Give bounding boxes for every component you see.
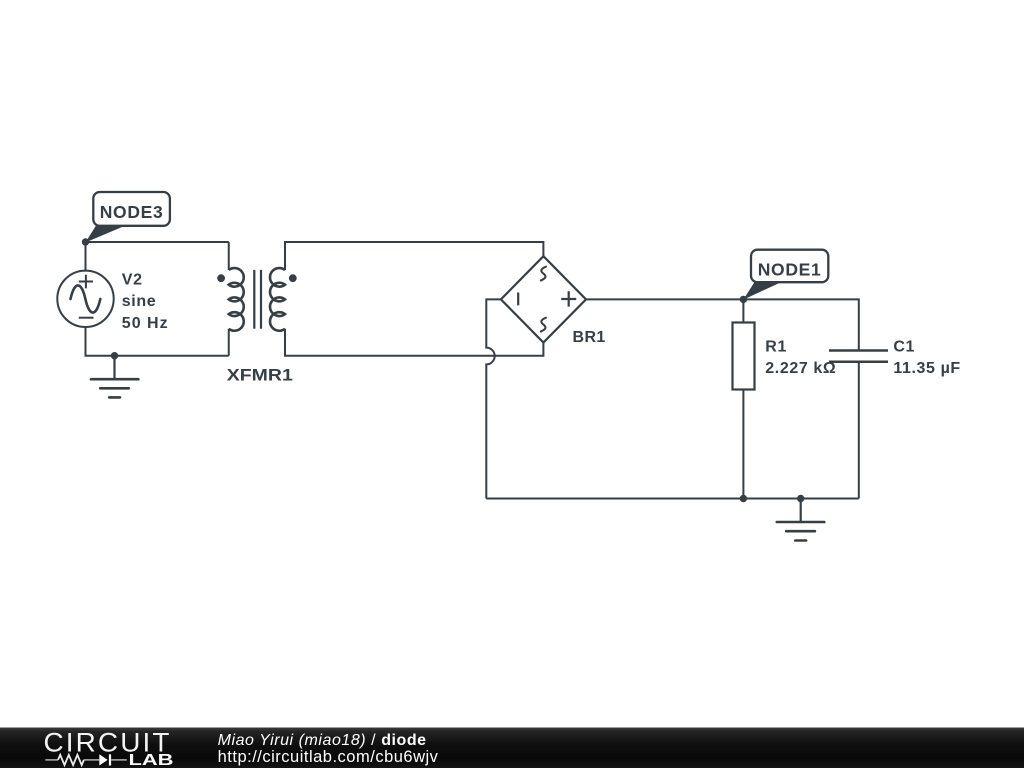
bridge rectifier BR1 <box>501 256 586 342</box>
ground (right) <box>777 499 825 541</box>
svg-text:Miao Yirui (miao18) / diode: Miao Yirui (miao18) / diode <box>218 732 427 749</box>
resistor R1 <box>733 323 755 390</box>
svg-text:sine: sine <box>122 293 156 310</box>
junction dot R1 bottom <box>740 495 747 502</box>
label R1 2.227 kOhm <box>765 339 836 378</box>
node NODE1 junction dot <box>740 296 747 303</box>
transformer XFMR1 <box>217 242 296 356</box>
wire NODE1 to R1 top <box>742 299 744 322</box>
node A junction dot <box>82 238 89 245</box>
capacitor C1 <box>829 351 888 362</box>
junction dot ground right <box>797 495 804 502</box>
label C1 11.35 uF <box>893 339 960 378</box>
svg-text:http://circuitlab.com/cbu6wjv: http://circuitlab.com/cbu6wjv <box>218 748 439 766</box>
svg-text:LAB: LAB <box>129 752 174 768</box>
svg-text:R1: R1 <box>765 339 787 356</box>
wire XFMR1 secondary top to BR1 <box>285 242 543 270</box>
ground (left) <box>91 356 138 398</box>
svg-text:XFMR1: XFMR1 <box>227 367 293 385</box>
node label NODE1 <box>743 250 828 300</box>
svg-text:V2: V2 <box>122 272 143 289</box>
voltage source V2 <box>57 271 113 327</box>
svg-text:50 Hz: 50 Hz <box>122 315 169 332</box>
wire XFMR1 secondary bottom to BR1 bottom vertex <box>285 329 543 356</box>
wire R1 bottom to rail <box>742 390 744 499</box>
wire BR1 right vertex to C1 branch <box>586 299 859 350</box>
value label V2 sine 50 Hz <box>122 272 169 332</box>
wire BR1 left vertex down with hop over secondary wire <box>486 299 501 498</box>
svg-text:11.35 µF: 11.35 µF <box>893 360 960 377</box>
wire bottom rail <box>486 498 859 500</box>
footer bar <box>0 728 1024 769</box>
svg-text:NODE3: NODE3 <box>100 202 164 222</box>
node label NODE3 <box>85 192 169 243</box>
svg-text:BR1: BR1 <box>573 329 606 346</box>
svg-text:C1: C1 <box>893 339 915 356</box>
svg-text:NODE1: NODE1 <box>758 260 822 280</box>
logo resistor-diode squiggle <box>45 754 127 765</box>
wire bottom-left V2 to XFMR1 primary <box>86 327 229 356</box>
wire top-left horizontal V2 to XFMR1 primary <box>86 242 229 271</box>
junction dot ground left <box>111 352 118 359</box>
wire C1 bottom to rail <box>858 362 860 499</box>
svg-text:2.227 kΩ: 2.227 kΩ <box>765 360 836 377</box>
